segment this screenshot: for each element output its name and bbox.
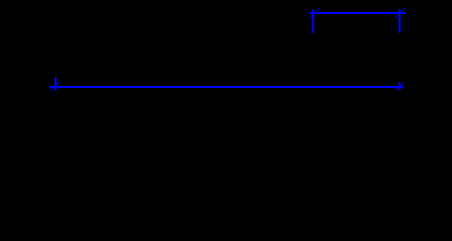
bottom dimension line <box>49 86 404 88</box>
top right tick <box>395 8 405 18</box>
top dimension line <box>310 12 405 14</box>
bottom left extension stub <box>55 77 57 90</box>
top left tick <box>309 8 319 18</box>
top left extension line <box>312 9 314 33</box>
bottom right extension stub <box>399 82 401 90</box>
bottom right tick <box>395 82 404 91</box>
top right extension line <box>399 9 401 33</box>
bottom left tick <box>50 81 60 91</box>
